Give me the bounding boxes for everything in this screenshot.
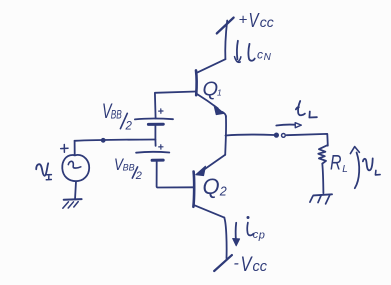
battery B1 short plate <box>148 123 163 126</box>
wire terminal to RL corner <box>287 134 328 146</box>
svg-text:-: - <box>234 255 239 272</box>
svg-text:V: V <box>249 10 260 32</box>
-Vcc supply rail tick <box>214 255 232 271</box>
battery B2 short plate <box>152 159 163 162</box>
source VI circle <box>62 155 89 181</box>
label +Vcc <box>239 10 274 32</box>
wire source to input wire <box>74 141 76 155</box>
Q1 collector lead <box>196 59 225 73</box>
label iCN <box>248 44 271 63</box>
label iL <box>296 101 317 118</box>
label iCP <box>247 216 265 241</box>
svg-text:c: c <box>257 47 263 61</box>
svg-text:cc: cc <box>253 259 268 275</box>
source VI plus sign <box>61 145 68 153</box>
svg-text:N: N <box>264 52 272 63</box>
label vI <box>36 163 51 180</box>
input node dot <box>101 138 106 143</box>
output wire to node dot <box>226 134 275 137</box>
svg-text:cc: cc <box>260 14 274 30</box>
iL arrow <box>276 124 294 127</box>
svg-text:Q: Q <box>203 174 220 199</box>
wire Q2 collector to -Vcc <box>224 218 226 259</box>
transistor Q1 base bar <box>195 70 198 95</box>
svg-text:2: 2 <box>219 185 227 199</box>
resistor RL zigzag <box>318 145 327 163</box>
svg-text:p: p <box>258 229 265 241</box>
svg-text:BB: BB <box>111 109 122 121</box>
open terminal circle <box>282 134 286 138</box>
ground under RL <box>310 194 332 204</box>
svg-text:2: 2 <box>125 120 133 132</box>
battery B1 long plate <box>135 118 173 121</box>
ground under source <box>63 199 82 208</box>
transistor Q2 base bar <box>192 172 195 207</box>
label Q1 <box>203 78 223 100</box>
Q1 emitter lead with arrow <box>196 94 217 109</box>
battery B1 plus sign <box>159 109 163 113</box>
battery B2 plus sign <box>159 145 163 149</box>
svg-text:R: R <box>330 152 342 175</box>
svg-text:L: L <box>342 164 348 175</box>
Q2 emitter lead with arrow into base <box>205 155 226 169</box>
label -Vcc <box>234 253 268 276</box>
output node vertical wire <box>224 116 227 155</box>
battery B2 long plate <box>136 151 169 154</box>
vL curved arrow <box>355 153 359 189</box>
label RL <box>330 152 348 175</box>
battery B1 top wire to Q1 base <box>155 92 196 119</box>
svg-text:BB: BB <box>123 162 135 172</box>
input wire from source <box>75 140 156 141</box>
label vL <box>363 158 380 175</box>
svg-text:Q: Q <box>203 78 219 100</box>
label VBB/2 top <box>102 100 133 132</box>
source sine squiggle <box>68 161 81 168</box>
wire B1 to input node <box>154 125 156 146</box>
svg-text:1: 1 <box>217 88 222 98</box>
label VBB/2 bottom <box>114 155 142 182</box>
Q2 collector lead <box>194 205 225 218</box>
iCN current arrow <box>237 41 238 60</box>
output node dot <box>274 133 279 138</box>
svg-text:V: V <box>241 253 254 276</box>
label Q2 <box>203 174 227 199</box>
iCP current arrow <box>235 223 238 242</box>
wire RL to ground <box>322 164 323 194</box>
wire B2 to Q2 base <box>157 162 194 188</box>
wire source to ground <box>75 181 76 199</box>
+Vcc supply rail tick <box>217 18 234 34</box>
svg-text:+: + <box>239 12 248 29</box>
wire +Vcc down to Q1 collector <box>225 21 227 60</box>
wire Q1 emitter to output node <box>223 112 226 117</box>
